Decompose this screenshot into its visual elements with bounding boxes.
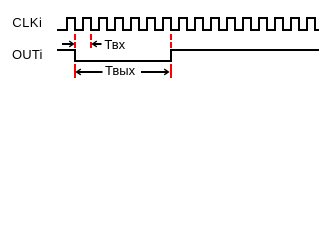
svg-text:Твых: Твых <box>105 63 136 78</box>
svg-text:OUTi: OUTi <box>12 47 43 62</box>
svg-text:CLKi: CLKi <box>12 15 42 30</box>
svg-text:Твх: Твх <box>104 37 125 52</box>
